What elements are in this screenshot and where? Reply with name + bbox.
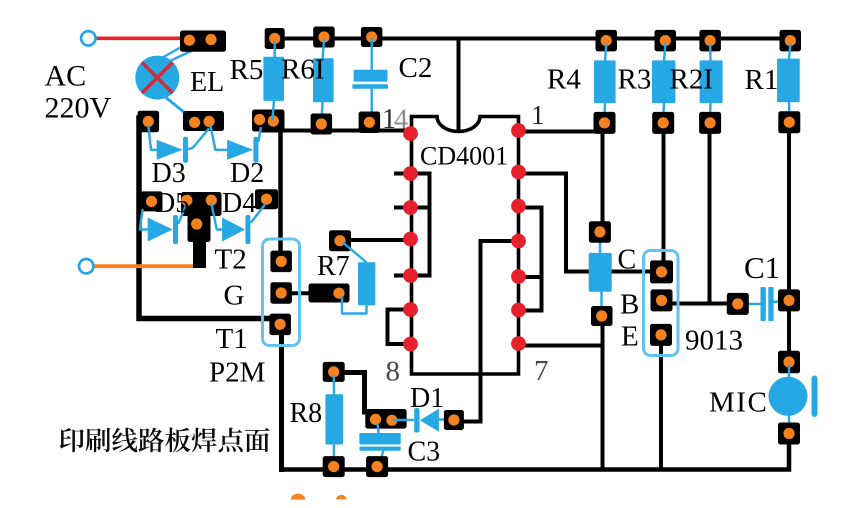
wire bridge right column (278, 118, 283, 258)
lamp EL leads (160, 42, 190, 59)
wire IC pin 1 to R4 (519, 122, 600, 132)
diode D2 leads (211, 126, 228, 150)
pad R4 bottom (594, 112, 616, 134)
diode D5 (148, 215, 178, 244)
wire IC right-side link pins (519, 208, 542, 311)
capacitor C1 leads (743, 303, 760, 305)
svg-text:C3: C3 (408, 437, 441, 468)
pad MIC bottom (778, 423, 800, 445)
diode D1 lead left (394, 419, 413, 421)
capacitor C2 leads (371, 39, 373, 70)
pad C2 top (361, 27, 383, 47)
svg-text:MIC: MIC (709, 387, 768, 419)
svg-text:7: 7 (534, 355, 549, 387)
wire stub gate input b (396, 206, 412, 210)
node component body (589, 253, 612, 292)
svg-text:D2: D2 (230, 158, 264, 189)
wire stub right pin 5 (519, 275, 542, 279)
pad D5 left (141, 191, 163, 211)
pad bridge mid (2 holes + stem) (181, 192, 222, 216)
svg-text:R8: R8 (290, 398, 323, 429)
wire IC left lower link (388, 310, 412, 345)
svg-text:C: C (618, 245, 637, 276)
pad node top (589, 221, 611, 243)
svg-text:P2M: P2M (209, 357, 265, 389)
pad base B (651, 289, 673, 311)
lamp EL (135, 56, 179, 100)
svg-text:D1: D1 (410, 383, 444, 414)
caption 印刷线路板焊点面 (traced outlines) (60, 428, 270, 453)
svg-text:C2: C2 (399, 52, 433, 84)
svg-text:4: 4 (394, 105, 408, 136)
resistor R6 (313, 58, 334, 102)
pad T2 (270, 251, 292, 273)
wire base to C1 (670, 302, 730, 306)
diode D3 leads (149, 127, 158, 150)
wire R3 to collector (662, 130, 666, 265)
diode D2 (227, 137, 258, 163)
resistor R1 leads (789, 44, 790, 59)
pad C1 right (778, 289, 800, 311)
pad bridge top-left (138, 111, 160, 133)
wire R5/R6/C2 bottom row to pin 14 (262, 129, 410, 133)
IC pin dots (red) (403, 123, 526, 351)
wire R2 to base line (708, 130, 712, 304)
resistor R4 (594, 60, 616, 103)
svg-text:D5: D5 (155, 188, 189, 219)
wire R8 top pad to C3 node (340, 373, 365, 413)
wire R4 branch lower column to rail (601, 320, 605, 470)
wire top rail to IC notch (457, 39, 461, 132)
bar C3/D1 node (2 holes) (365, 409, 406, 429)
pad AC top (2 holes) (180, 31, 226, 52)
pad R6 bottom (311, 114, 333, 135)
wire AC neutral (orange) (95, 264, 196, 268)
terminal AC-1 (81, 31, 95, 45)
resistor R5 (263, 57, 284, 101)
svg-text:R6I: R6I (281, 54, 325, 86)
pad C2 bottom (359, 112, 381, 134)
pad bridge top-right / R5 bottom (2 holes) (252, 110, 285, 132)
pad bridge top-mid (2 holes) (183, 111, 224, 131)
wire D1 node to IC pin (vertical) (458, 241, 518, 422)
svg-text:EL: EL (190, 67, 224, 98)
svg-text:R2I: R2I (670, 64, 714, 96)
capacitor C3 leads (378, 424, 379, 434)
svg-text:R3: R3 (618, 64, 652, 96)
pad R3 top (655, 30, 677, 52)
pad R8 top (323, 362, 345, 382)
wire T1 to bottom rail (279, 330, 284, 470)
svg-text:1: 1 (531, 100, 545, 130)
resistor R2 (700, 60, 723, 103)
wire IC left-side link (411, 174, 430, 276)
resistor R3 leads (664, 44, 665, 61)
svg-text:T2: T2 (215, 244, 247, 276)
resistor R8 (325, 394, 343, 444)
diode D5 leads (140, 210, 148, 230)
pad G (270, 282, 292, 304)
pad R2 top (699, 30, 721, 52)
microphone MIC (769, 376, 818, 418)
svg-text:T1: T1 (216, 323, 248, 355)
pad R4 top (596, 30, 618, 52)
resistor R7 (358, 262, 375, 305)
resistor R6 leads (323, 40, 324, 59)
wire emitter to ground rail (659, 340, 663, 470)
wire IC pin to collector node (519, 174, 655, 272)
svg-text:220V: 220V (45, 92, 112, 125)
resistor R1 (777, 59, 800, 103)
diode D4 (222, 215, 250, 244)
pad R5 top (265, 28, 285, 49)
svg-text:CD4001: CD4001 (420, 142, 508, 171)
resistor R2 leads (709, 44, 712, 61)
outline triac P2M (263, 239, 300, 346)
outline transistor 9013 (644, 251, 679, 356)
wire stub gate input a (396, 172, 412, 176)
pad collector C (650, 260, 673, 283)
cropped orange pad dot b (336, 495, 347, 499)
pad C3 bottom (366, 456, 388, 477)
jumper bar R7 node (309, 284, 350, 303)
wire left column from bridge to T1 (139, 118, 276, 319)
wire stub left pin 3 (411, 206, 430, 210)
svg-text:B: B (620, 289, 639, 321)
svg-text:9013: 9013 (685, 325, 743, 357)
resistor R4 leads (605, 44, 606, 61)
pad C1 left (727, 293, 749, 315)
wire R7 node to IC input (350, 238, 410, 242)
resistor R8 leads (333, 376, 336, 395)
pad R2 bottom (699, 112, 721, 134)
pad D4 right (255, 189, 278, 209)
svg-text:G: G (224, 280, 245, 312)
wire stub gate input c (396, 274, 412, 278)
svg-text:D4: D4 (222, 188, 256, 219)
resistor R7 leads (344, 243, 367, 262)
capacitor C3 (359, 433, 400, 445)
svg-text:R4: R4 (547, 64, 581, 96)
resistor R5 leads (274, 42, 276, 58)
wire R1 to C1 node (787, 128, 791, 294)
resistor R3 (652, 60, 675, 103)
diode D1 lead right (440, 418, 453, 420)
pad node bottom (591, 306, 613, 326)
wire top supply rail (268, 37, 788, 41)
svg-text:R1: R1 (745, 64, 779, 96)
wire R4 to node pad (601, 130, 605, 226)
wire AC live (red) (96, 36, 186, 40)
node component (blue) leads (599, 234, 601, 254)
diode D3 (157, 137, 188, 163)
pad emitter E (650, 324, 672, 346)
cropped orange pad dot a (291, 494, 305, 500)
terminal AC-2 (79, 259, 93, 273)
svg-text:R7: R7 (317, 251, 350, 282)
pad R1 bottom (778, 111, 800, 133)
pad MIC top (778, 351, 800, 374)
svg-text:E: E (621, 321, 639, 353)
diode D4 leads (212, 204, 223, 230)
capacitor C1 (761, 287, 766, 321)
wire gate to R7 bar (290, 291, 312, 295)
capacitor C2 (354, 70, 388, 82)
pad D1 right (444, 410, 464, 430)
microphone MIC leads (788, 366, 790, 380)
wire bottom ground rail (282, 440, 790, 470)
svg-text:R5: R5 (230, 54, 264, 86)
pad R6 top (313, 27, 335, 48)
pad R8 bottom (323, 456, 345, 477)
pad T1 (269, 314, 291, 336)
op-amp U1 CD4001 IC outline (412, 117, 519, 375)
pad R7 top (329, 230, 351, 251)
svg-text:8: 8 (386, 356, 401, 388)
diode D1 (414, 408, 439, 433)
pad R3 bottom (652, 112, 674, 134)
svg-text:AC: AC (45, 60, 87, 93)
svg-text:C1: C1 (744, 250, 780, 285)
wire IC pin 7 to ground (519, 344, 603, 348)
pad R1 top (780, 30, 802, 52)
wire C1 node to MIC (787, 312, 791, 355)
svg-text:D3: D3 (152, 158, 186, 189)
